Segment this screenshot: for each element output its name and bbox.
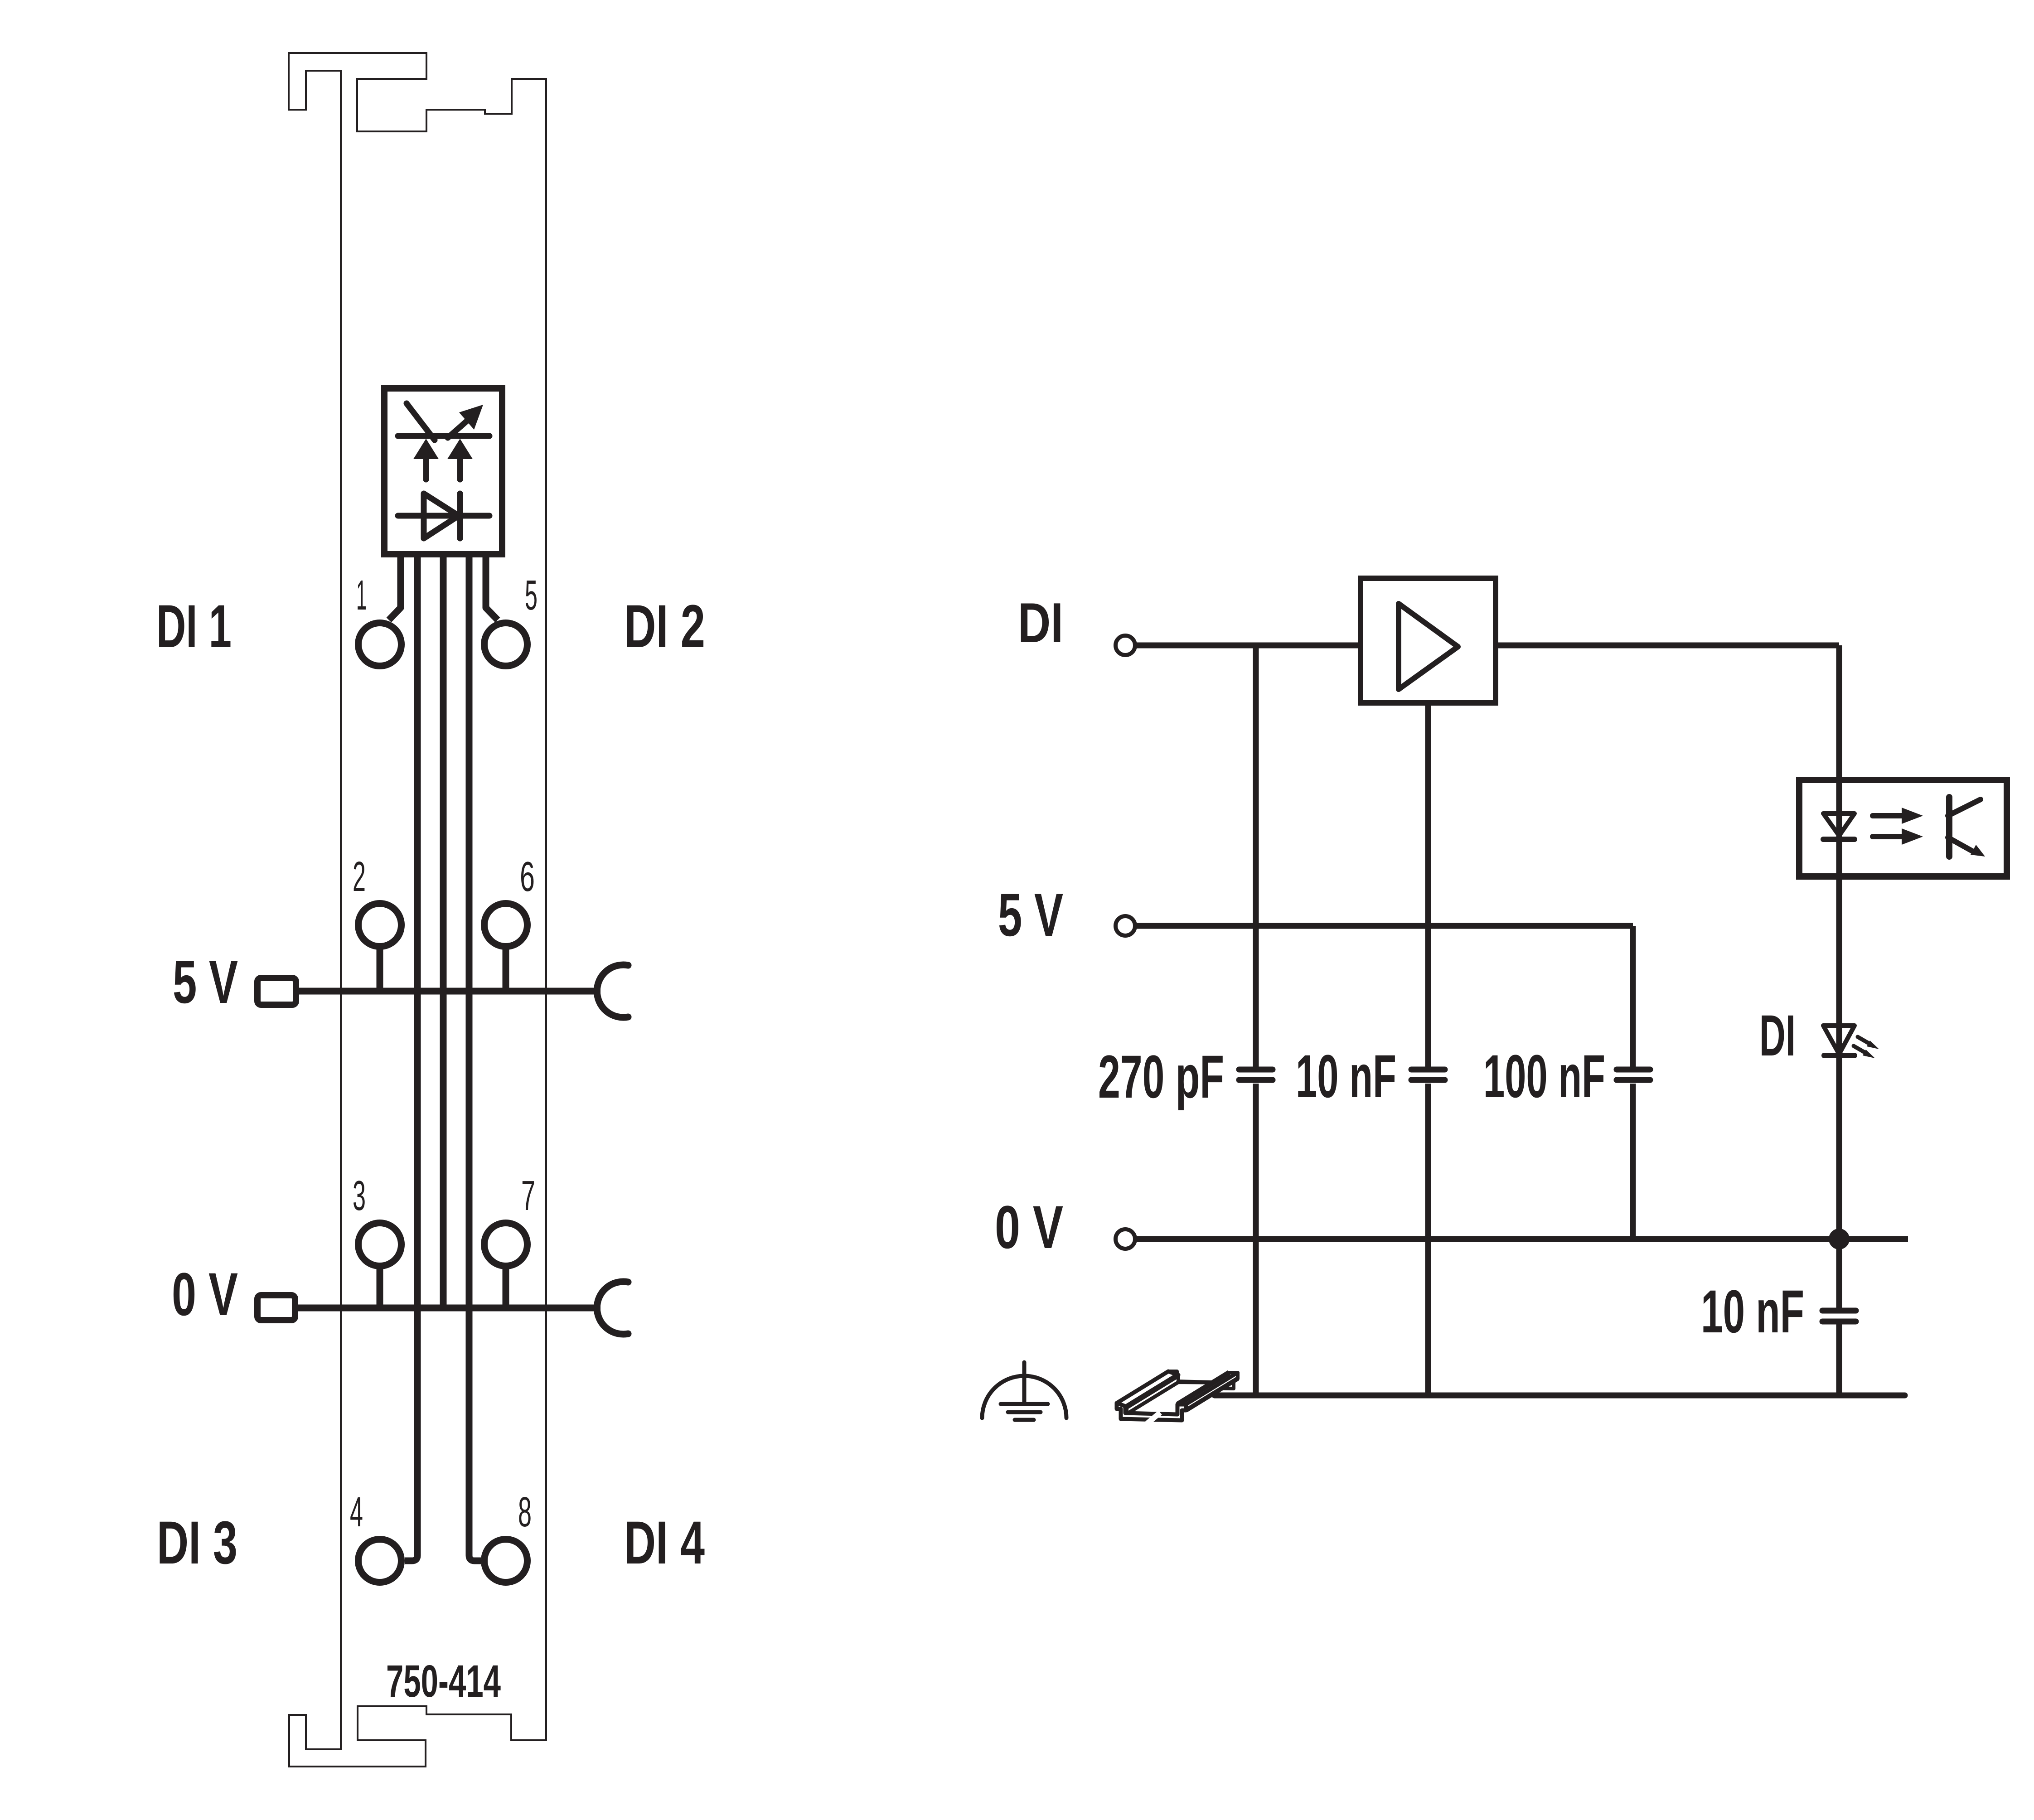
terminal 7: [484, 1223, 528, 1266]
terminal 2: [358, 904, 402, 947]
opto-coupler U1 box: [384, 388, 502, 554]
diode D1 in U1: [398, 494, 489, 538]
svg-text:DI 2: DI 2: [624, 593, 705, 660]
opto-coupler U3 box: [1799, 780, 2007, 876]
svg-text:0 V: 0 V: [995, 1194, 1063, 1261]
photodetector symbol in U1: [398, 403, 489, 440]
capacitor C2 10 nF plates: [1411, 1067, 1445, 1073]
wire right vertical DI net: [1836, 645, 1842, 1311]
capacitor C2 10 nF branch wire: [1425, 703, 1431, 1067]
svg-text:DI: DI: [1018, 592, 1063, 654]
svg-text:0 V: 0 V: [172, 1261, 238, 1328]
svg-text:10 nF: 10 nF: [1296, 1043, 1396, 1110]
svg-text:5: 5: [525, 571, 538, 619]
LED inside U3: [1823, 813, 1855, 836]
wire 5V line: [1136, 923, 1633, 929]
terminal 1: [358, 623, 402, 666]
svg-text:100 nF: 100 nF: [1483, 1043, 1605, 1110]
wire 0V line: [1136, 1236, 1908, 1242]
wire leg 1 to terminal 1: [389, 557, 401, 620]
svg-text:5 V: 5 V: [173, 949, 238, 1016]
terminal 4: [358, 1539, 402, 1583]
photodetector small arrow right: [457, 460, 463, 479]
LED DI indicator light arrow 1: [1858, 1037, 1869, 1044]
svg-text:2: 2: [353, 853, 366, 900]
capacitor C3 100 nF branch wire: [1630, 926, 1636, 1067]
svg-text:270 pF: 270 pF: [1098, 1043, 1224, 1111]
svg-text:750-414: 750-414: [386, 1656, 501, 1707]
phototransistor Q1 in U3: [1946, 797, 1952, 857]
LED DI indicator: [1823, 1026, 1855, 1054]
terminal 3: [358, 1223, 402, 1266]
svg-text:8: 8: [518, 1488, 532, 1535]
capacitor C3 100 nF plates: [1617, 1067, 1650, 1073]
node 5V terminal: [1116, 916, 1135, 936]
stub wire terminal 2 to 5V bus: [377, 949, 383, 991]
light arrow 2 in U3: [1873, 834, 1903, 839]
amplifier triangle: [1399, 604, 1458, 689]
bottom earth line: [1215, 1393, 1905, 1399]
0V jumper contact arc: [597, 1282, 628, 1334]
junction dot 0V net: [1829, 1229, 1850, 1249]
node DI input terminal: [1116, 636, 1135, 655]
wire leg 3 to 0V bus: [440, 557, 447, 1308]
wire leg 2 to terminal 4: [405, 557, 417, 1561]
svg-text:5 V: 5 V: [998, 881, 1063, 949]
svg-text:6: 6: [520, 853, 535, 900]
stub wire terminal 6 to 5V bus: [503, 949, 509, 991]
light arrow 1 in U3: [1873, 813, 1903, 818]
terminal 6: [484, 904, 528, 947]
wire DI input to amplifier: [1136, 643, 1361, 649]
node 0V terminal: [1116, 1229, 1135, 1249]
svg-text:4: 4: [350, 1488, 363, 1535]
0V terminal square: [257, 1295, 295, 1320]
photodetector small arrow left: [423, 460, 429, 479]
earth ground symbol: [1022, 1362, 1027, 1404]
terminal 8: [484, 1539, 528, 1583]
capacitor C1 270 pF branch wire: [1253, 645, 1259, 1067]
capacitor C4 10 nF plates: [1822, 1308, 1856, 1314]
DIN rail symbol: [1117, 1371, 1238, 1423]
svg-text:DI: DI: [1759, 1003, 1796, 1068]
stub wire terminal 7 to 0V bus: [503, 1268, 509, 1307]
stub wire terminal 3 to 0V bus: [377, 1268, 383, 1307]
wire leg 4 to terminal 8: [469, 557, 481, 1561]
svg-text:DI 4: DI 4: [624, 1509, 705, 1577]
svg-text:3: 3: [353, 1172, 366, 1219]
5V bus bar: [296, 988, 601, 995]
5V terminal square: [257, 978, 296, 1005]
0V bus bar: [295, 1305, 601, 1312]
module outline 750-414: [289, 53, 546, 1767]
5V jumper contact arc: [597, 965, 628, 1017]
svg-text:DI 3: DI 3: [157, 1509, 237, 1577]
LED DI indicator light arrow 2: [1854, 1046, 1865, 1053]
svg-text:10 nF: 10 nF: [1701, 1278, 1804, 1346]
svg-text:1: 1: [356, 571, 367, 619]
amplifier U2 box: [1361, 578, 1496, 703]
terminal 5: [484, 623, 528, 666]
svg-text:7: 7: [521, 1172, 535, 1219]
wire amplifier output: [1496, 643, 1839, 649]
photodetector arrowhead: [459, 405, 483, 430]
svg-text:DI 1: DI 1: [156, 593, 232, 660]
capacitor C1 270 pF plates: [1239, 1067, 1273, 1073]
wire leg 5 to terminal 5: [486, 557, 498, 620]
